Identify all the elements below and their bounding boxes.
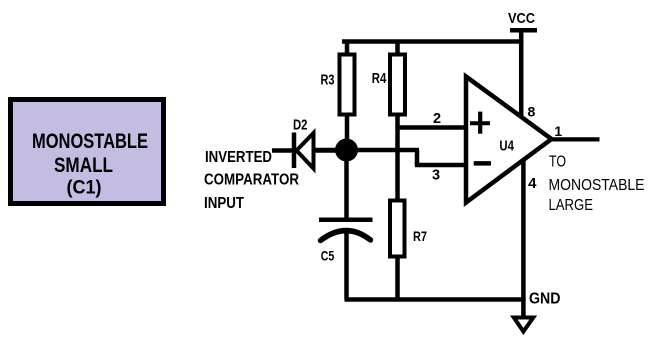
svg-text:R7: R7 xyxy=(413,228,427,244)
node label: inverted comparator input xyxy=(204,149,299,212)
op-amp minus input symbol xyxy=(474,161,491,166)
svg-text:2: 2 xyxy=(433,111,441,127)
svg-text:1: 1 xyxy=(554,123,562,139)
svg-text:VCC: VCC xyxy=(508,11,535,27)
wire: step down segment xyxy=(415,150,420,165)
capacitor C5 top plate xyxy=(319,218,373,223)
wire: input wire into diode xyxy=(272,148,294,153)
diode D2 cathode bar xyxy=(292,133,297,169)
op-amp plus input symbol xyxy=(470,121,490,125)
wire: op-amp pin 4 down to ground xyxy=(521,158,526,318)
wire: op-amp output pin 1 xyxy=(551,137,600,141)
wire: pin 3 horizontal into op-amp minus input xyxy=(415,163,468,168)
svg-text:GND: GND xyxy=(529,291,561,308)
svg-text:8: 8 xyxy=(528,104,536,120)
wire: C5 bottom to bottom rail xyxy=(344,231,349,300)
svg-text:D2: D2 xyxy=(293,117,308,134)
svg-text:INVERTED: INVERTED xyxy=(205,149,272,166)
svg-text:3: 3 xyxy=(432,168,440,184)
resistor R4 xyxy=(390,55,405,115)
VCC power bar xyxy=(510,28,537,33)
node label: to monostable large xyxy=(549,154,645,215)
svg-text:LARGE: LARGE xyxy=(549,197,594,214)
wire: main horizontal node wire (diode to step) xyxy=(313,148,419,153)
svg-text:R3: R3 xyxy=(321,72,335,89)
wire: VCC stem down to op-amp pin 8 xyxy=(519,30,524,122)
svg-text:INPUT: INPUT xyxy=(204,195,244,212)
wire: R3 vertical branch (rail to junction) xyxy=(345,42,350,152)
wire: junction to capacitor C5 top xyxy=(344,150,349,220)
node junction dot xyxy=(335,139,358,162)
svg-text:MONOSTABLE: MONOSTABLE xyxy=(32,130,148,153)
svg-text:4: 4 xyxy=(528,175,537,192)
svg-text:MONOSTABLE: MONOSTABLE xyxy=(549,177,645,194)
svg-text:U4: U4 xyxy=(499,139,514,155)
wire: top rail from R3 to VCC stem xyxy=(342,39,523,44)
wire: R4/R7 vertical branch (rail to bottom rail) xyxy=(395,42,400,300)
wire: pin 2 horizontal from R4 branch to op-amp plus input xyxy=(398,125,469,130)
resistor R3 xyxy=(340,55,355,115)
svg-text:SMALL: SMALL xyxy=(54,154,113,177)
diode D2 triangle xyxy=(297,133,314,169)
svg-text:TO: TO xyxy=(549,154,566,171)
resistor R7 xyxy=(390,201,405,257)
svg-text:(C1): (C1) xyxy=(67,177,102,199)
svg-text:COMPARATOR: COMPARATOR xyxy=(204,172,299,189)
monostable small block C1 xyxy=(11,100,164,204)
capacitor C5 bottom curved plate xyxy=(321,231,371,241)
wire: diode to junction xyxy=(314,148,341,153)
op-amp U4 xyxy=(466,77,552,203)
wire: bottom rail xyxy=(345,297,526,302)
ground symbol xyxy=(514,318,534,332)
svg-text:C5: C5 xyxy=(321,248,335,264)
svg-text:R4: R4 xyxy=(372,70,387,87)
